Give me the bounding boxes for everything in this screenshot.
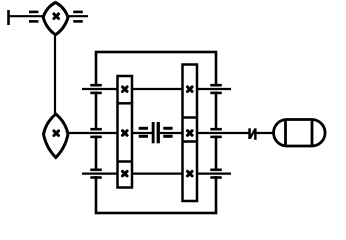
gearbox housing: [96, 52, 216, 213]
middle shaft right segment: [160, 132, 249, 134]
gear block B2 divider 2: [183, 140, 198, 143]
x mark B2 top gear: [188, 87, 193, 92]
wall gap at left wall top shaft: [94, 87, 99, 92]
bearing left wall bottom: [90, 169, 102, 179]
bearing left wall top: [90, 84, 102, 94]
x mark B2 bottom gear: [188, 171, 193, 176]
wall gap at left wall bottom shaft: [94, 171, 99, 176]
pulley P2 (lens): [44, 114, 69, 158]
clutch left half disc: [152, 122, 155, 143]
motor M body (stadium): [274, 120, 326, 147]
top shaft (shaft I): [82, 88, 231, 90]
gear block B1 divider 2: [118, 160, 133, 163]
bearing right wall top: [210, 84, 222, 94]
bearing right wall middle: [210, 128, 222, 138]
vertical shaft from P1 to P2: [54, 34, 56, 117]
bearing left wall middle: [90, 128, 102, 138]
x mark B1 middle gear: [123, 131, 128, 136]
wall gap at right wall middle shaft: [214, 131, 219, 136]
bearing right wall bottom: [210, 169, 222, 179]
wall gap at right wall top shaft: [214, 87, 219, 92]
clutch left spline bars: [139, 127, 148, 138]
wall gap at left wall middle shaft: [94, 131, 99, 136]
flexible coupling left bar: [248, 128, 251, 139]
motor stator right line: [311, 120, 314, 147]
gear block B2 outline: [183, 65, 198, 202]
middle shaft motor segment: [257, 132, 276, 134]
x mark B1 top gear: [123, 87, 128, 92]
clutch right spline bars: [163, 127, 172, 138]
gear block B1 divider 1: [118, 102, 133, 105]
gear block B1 outline: [118, 76, 133, 188]
clutch right half disc: [157, 122, 160, 143]
flexible coupling diagonal: [250, 130, 255, 138]
middle shaft left segment (shaft II): [66, 132, 152, 134]
bearing right of pulley P1: [73, 11, 83, 23]
x mark B1 bottom gear: [123, 171, 128, 176]
bearing left of pulley P1: [29, 11, 38, 23]
flexible coupling right bar: [254, 128, 257, 140]
bottom shaft (shaft III): [82, 173, 231, 175]
x mark of pulley P2: [54, 131, 59, 136]
x mark of pulley P1: [54, 14, 59, 19]
input shaft end tick: [7, 10, 10, 25]
wall gap at right wall bottom shaft: [214, 171, 219, 176]
motor stator left line: [284, 120, 287, 147]
top horizontal shaft: [8, 15, 88, 17]
gear block B2 divider 1: [183, 116, 198, 119]
pulley P1 (lens): [43, 3, 68, 35]
x mark B2 middle gear: [188, 131, 193, 136]
